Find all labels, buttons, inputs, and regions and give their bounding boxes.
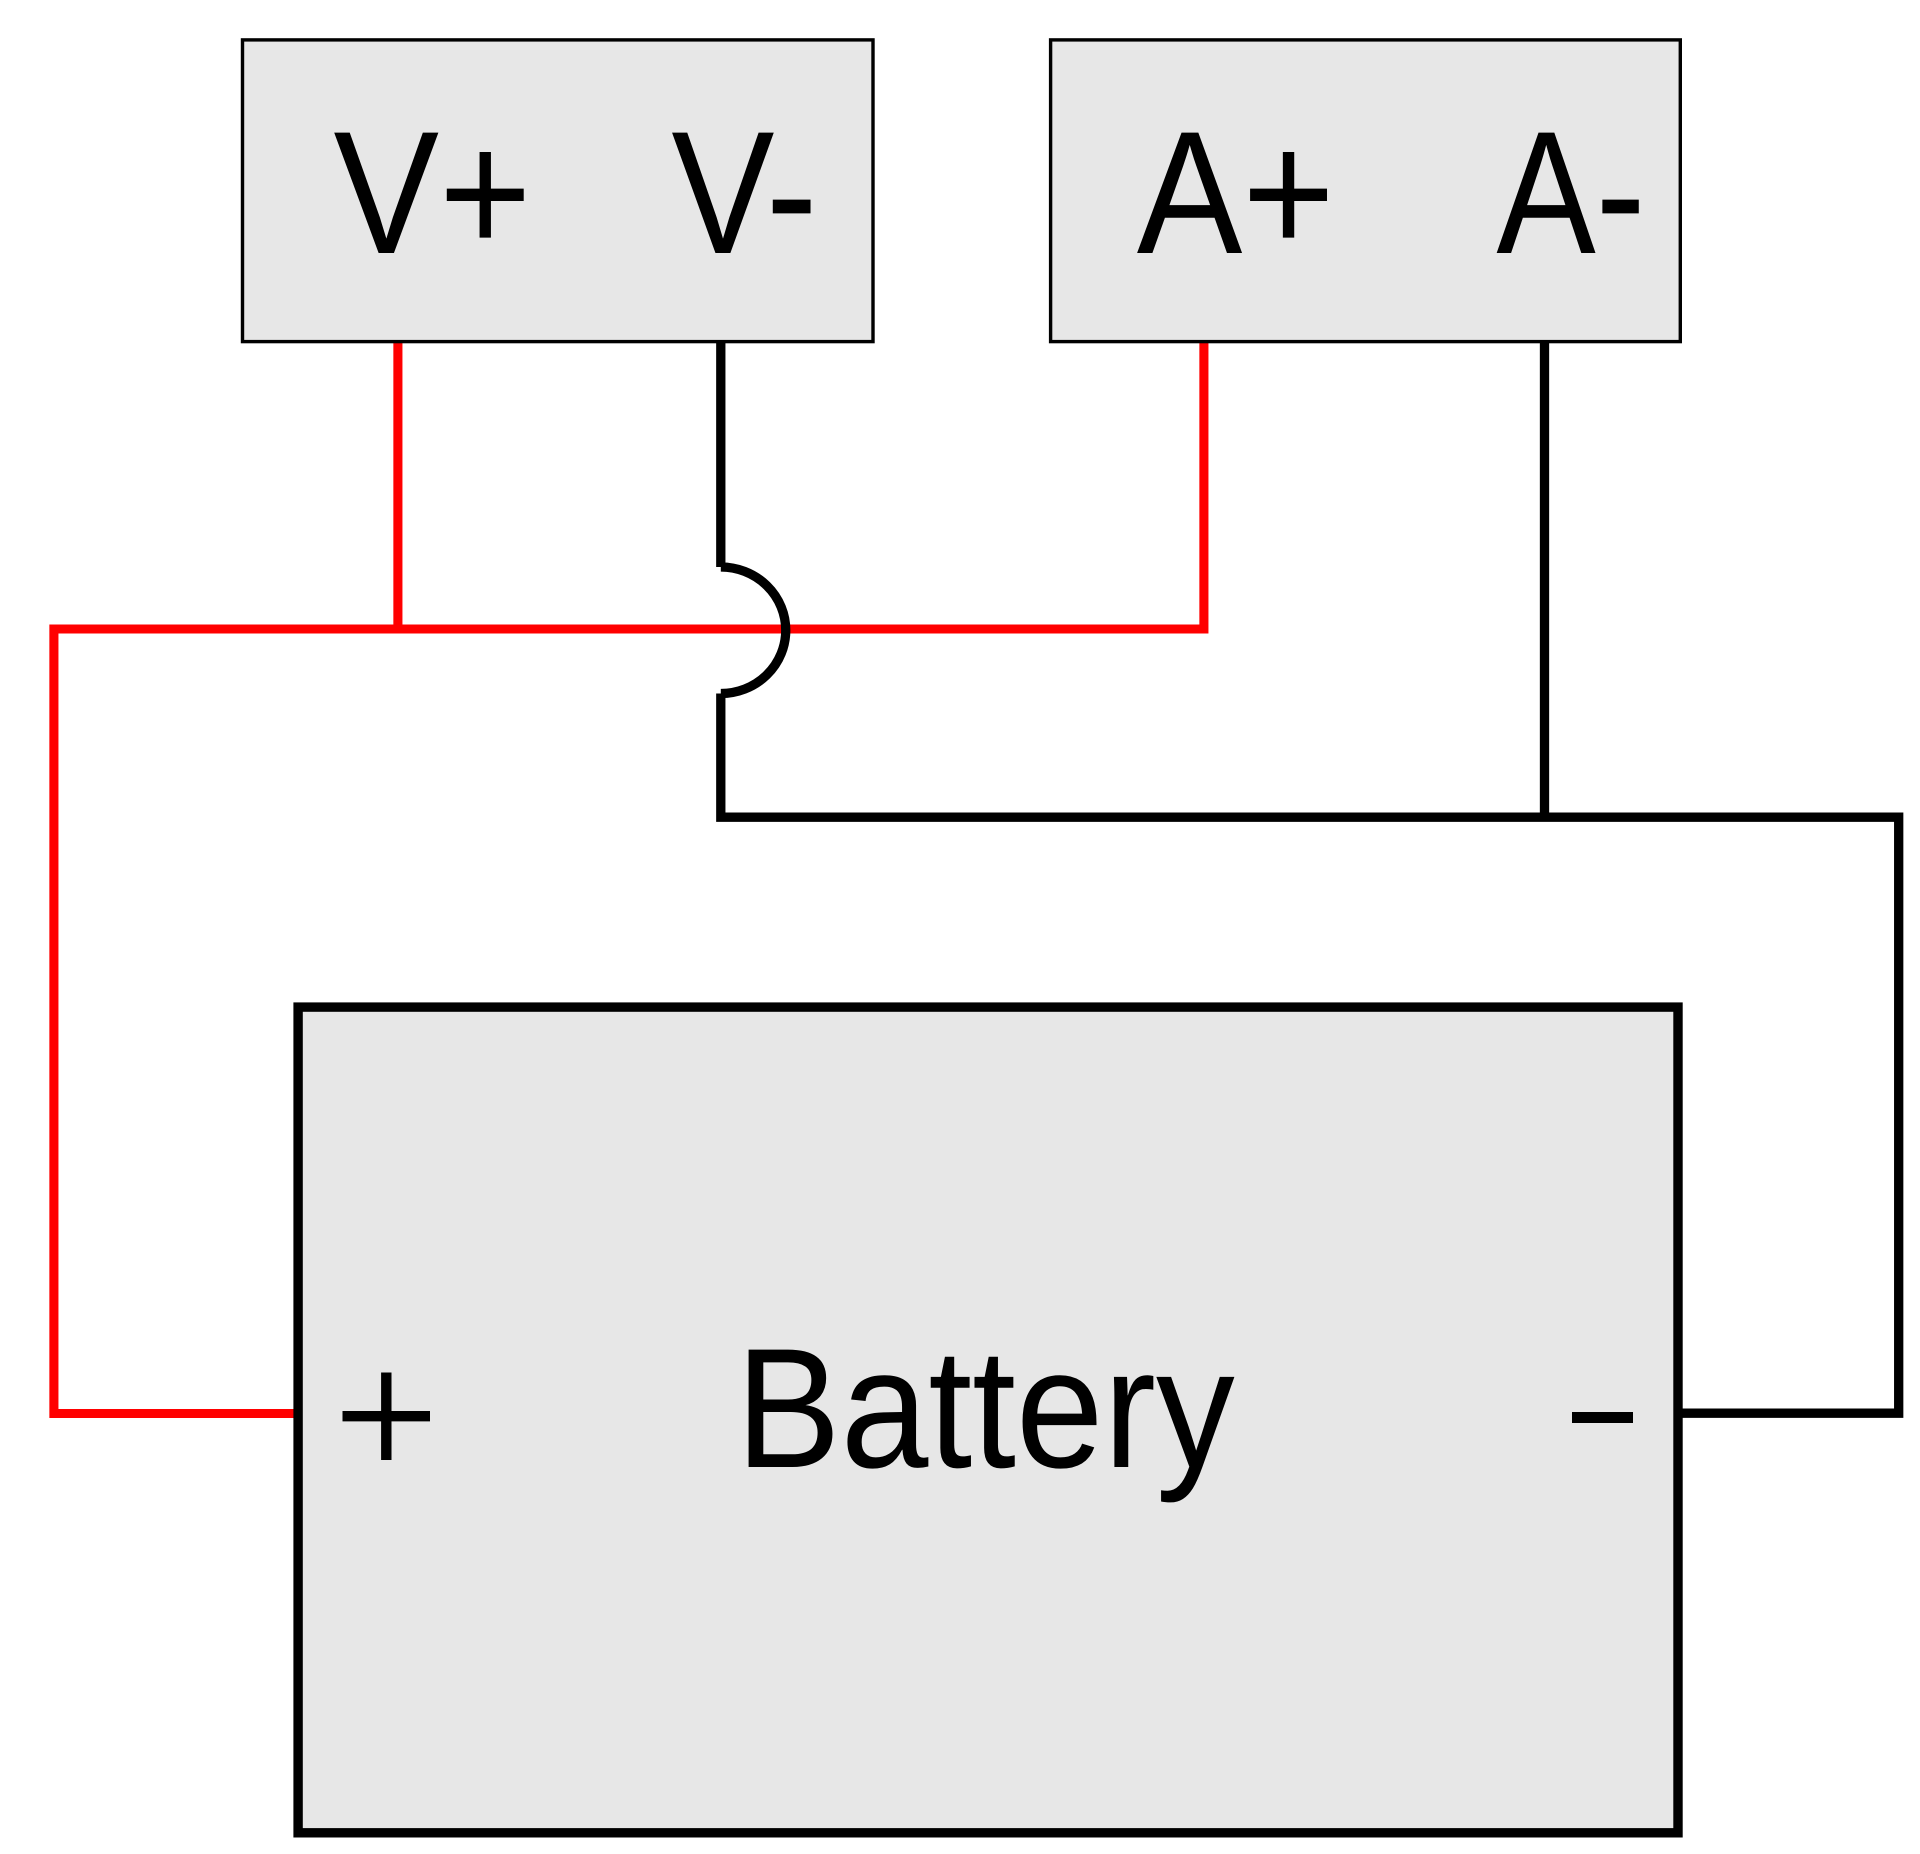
svg-text:Battery: Battery (736, 1314, 1235, 1504)
svg-text:V+: V+ (334, 96, 532, 291)
battery - terminal mark (1572, 1412, 1633, 1423)
wire red from A+ terminal left and down to battery + terminal (54, 341, 1204, 1414)
ammeter box (1051, 40, 1681, 342)
svg-text:V-: V- (671, 96, 817, 291)
battery box (298, 1007, 1678, 1833)
battery + terminal mark (343, 1373, 431, 1461)
wire red from V+ terminal down to red bus (393, 341, 402, 629)
svg-text:A-: A- (1496, 96, 1645, 291)
wire black from hop right and down to battery - terminal (721, 694, 1899, 1414)
wire black from V- terminal down to hop (716, 341, 725, 567)
wire black from A- terminal down to black bus (1540, 341, 1549, 817)
wire hop arc jumping over red bus (721, 567, 786, 694)
voltmeter box (243, 40, 874, 342)
svg-text:A+: A+ (1137, 96, 1335, 291)
